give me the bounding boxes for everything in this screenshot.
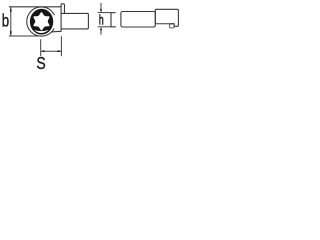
svg-text:S: S xyxy=(36,54,45,72)
svg-text:h: h xyxy=(99,14,104,28)
svg-text:b: b xyxy=(2,12,10,31)
